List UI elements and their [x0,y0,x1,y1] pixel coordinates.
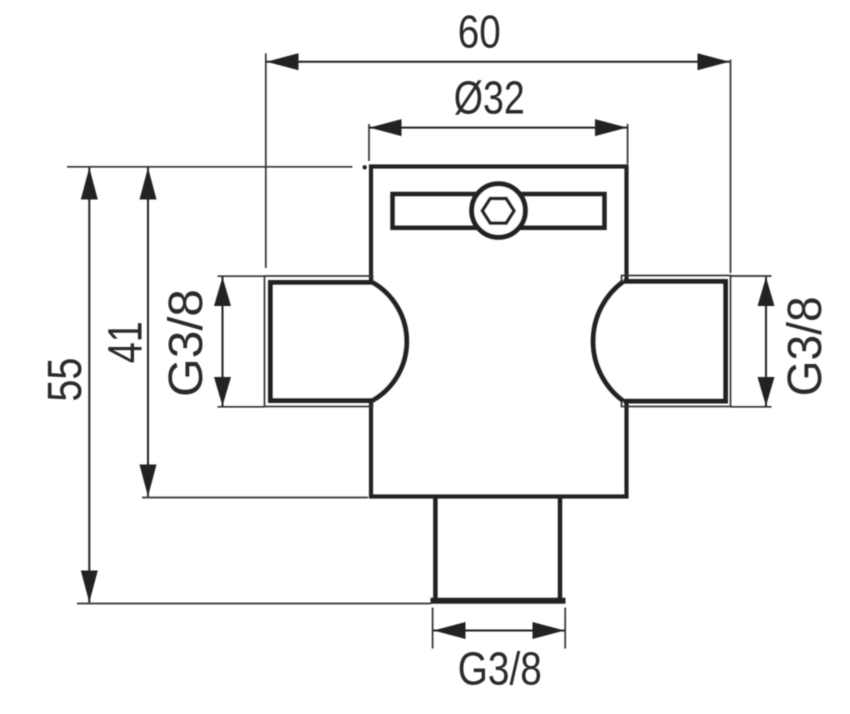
dim 55 arrowhead top [81,168,98,200]
svg-text:Ø32: Ø32 [454,72,525,124]
right G3/8 arrowhead bottom [758,377,775,406]
dim 32 arrowhead left [370,119,402,136]
right port thread thin outline [622,276,731,407]
right G3/8 bottom extension line [731,406,772,408]
right G3/8 arrowhead top [758,277,775,306]
svg-text:41: 41 [100,321,153,363]
dim 55 arrowhead bottom [81,571,98,603]
valve body outline [371,167,627,497]
left G3/8 top extension line [218,275,265,277]
dim 60 left extension line [265,53,267,268]
right port G3/8 boss [593,282,725,402]
left port thread thin outline [265,276,373,407]
bottom G3/8 arrowhead right [533,622,565,639]
dim 32 right extension line [627,124,629,164]
right G3/8 dim line [765,277,767,406]
left G3/8 dim line [222,277,224,406]
dim 32 arrowhead right [595,119,627,136]
svg-text:G3/8: G3/8 [458,643,542,695]
svg-text:G3/8: G3/8 [779,296,832,396]
dim 41 arrowhead top [140,168,157,200]
svg-text:55: 55 [39,358,92,402]
svg-text:60: 60 [458,6,501,58]
left G3/8 arrowhead top [214,277,231,306]
bottom G3/8 right extension line [564,608,566,649]
dim 32 line [370,127,628,129]
dim 41 line [147,168,149,497]
dim 41 bottom extension line [142,497,368,499]
left G3/8 arrowhead bottom [214,377,231,406]
bottom port G3/8 stub [435,497,560,601]
dim 60 arrowhead left [267,53,299,70]
dim 55 line [88,168,90,603]
left port G3/8 boss [271,283,407,401]
dim 60 right extension line [730,60,732,274]
right G3/8 top extension line [731,275,772,277]
valve spindle slot [393,194,605,228]
bottom G3/8 dim line [434,630,565,632]
bottom G3/8 arrowhead left [434,622,466,639]
left G3/8 bottom extension line [218,406,265,408]
screw head circle [472,184,526,238]
dim 32 left extension line [368,124,370,161]
dim 55 bottom extension line [77,603,431,605]
dim 60 arrowhead right [698,53,730,70]
hex socket [482,199,514,224]
reference dot [363,165,367,169]
bottom G3/8 left extension line [432,608,434,649]
dim 41 arrowhead bottom [140,465,157,497]
dim 60 line [267,61,730,63]
svg-text:G3/8: G3/8 [160,289,213,397]
dims 55/41 top extension line [67,166,352,168]
